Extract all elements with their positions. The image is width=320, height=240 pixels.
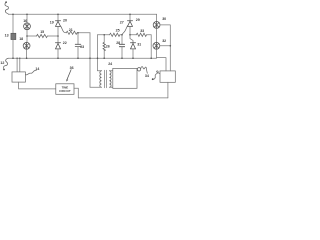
wire R33 to corner [147, 35, 152, 58]
svg-text:23: 23 [80, 45, 84, 49]
svg-text:34: 34 [145, 74, 149, 78]
svg-text:36: 36 [70, 66, 74, 70]
wire SCR2 cathode stub [129, 14, 131, 20]
wire R26 bottom stub [103, 51, 105, 58]
diode D31 [130, 43, 135, 49]
wire top rail [9, 13, 157, 15]
wire R26 top stub [103, 35, 105, 43]
wire lamp node east lead [156, 58, 166, 71]
time delay box [56, 84, 74, 95]
wire right mid rail corner [98, 34, 110, 36]
wire anode branch right [130, 34, 136, 36]
junction dots [12, 14, 171, 60]
wire secondary top lead [109, 70, 112, 72]
AC lead squiggle top-left [5, 2, 9, 14]
svg-text:22: 22 [63, 41, 67, 45]
squiggle tip bottom [3, 69, 5, 71]
wire mid rail left [27, 35, 37, 37]
svg-text:32: 32 [162, 39, 166, 43]
wire SCR1 anode to diode [57, 26, 59, 42]
wire cap2 bottom stub [121, 47, 123, 59]
svg-text:33: 33 [140, 29, 144, 33]
capacitor C23 [75, 44, 81, 46]
plug box [12, 72, 25, 82]
wire lamp column lower [26, 49, 28, 58]
svg-text:14: 14 [35, 67, 39, 71]
svg-text:19: 19 [50, 21, 54, 25]
resistor R33 [136, 33, 146, 36]
resistor R25 [110, 33, 120, 36]
svg-text:15: 15 [40, 30, 44, 34]
diode D22 [55, 43, 60, 49]
wire SCR2 anode jog to diode [130, 26, 133, 42]
time delay box text [59, 86, 71, 93]
resistor R13 (box) [11, 33, 16, 39]
wire diode22 to bottom rail [57, 49, 59, 58]
wire R25 to cap junction [120, 34, 122, 36]
wire cap1 top stub [77, 33, 79, 45]
resistor R15 [37, 34, 48, 37]
wire bottom rail [9, 57, 157, 59]
svg-text:20: 20 [63, 18, 67, 22]
wire timer exit right [74, 88, 78, 98]
wire lamp30 right lead [160, 25, 170, 71]
svg-text:18: 18 [19, 37, 23, 41]
wire lamp column upper [26, 14, 28, 22]
svg-text:31: 31 [137, 43, 141, 47]
lamp L32 [153, 42, 160, 49]
wire lamp chain mid [156, 29, 158, 43]
SCR Q27 [127, 21, 132, 27]
lamp L16 [24, 23, 31, 30]
transformer T24 secondary winding [109, 71, 111, 88]
wire left vertical upper [12, 14, 14, 33]
svg-text:28: 28 [116, 41, 120, 45]
svg-text:21: 21 [69, 28, 73, 32]
SCR Q19 [55, 21, 60, 27]
svg-text:CIRCUIT: CIRCUIT [59, 89, 71, 93]
wire gate line to corner [77, 32, 90, 34]
AC lead squiggle bottom-left [3, 58, 8, 69]
cord tip dot [152, 78, 154, 80]
wire mid rail right [47, 35, 58, 37]
svg-text:29: 29 [136, 18, 140, 22]
svg-text:30: 30 [162, 17, 166, 21]
cord squiggle a [141, 67, 148, 74]
wire lamp chain top corner [156, 14, 158, 21]
jack circle [137, 68, 140, 71]
squiggle tip top [5, 1, 7, 3]
lamp L30 [153, 21, 160, 28]
pointer arrowhead [66, 79, 68, 82]
svg-text:24: 24 [108, 62, 112, 66]
antenna wavy lead 14 [25, 70, 36, 75]
wire left vertical lower [12, 40, 14, 59]
wire lamp column mid [26, 30, 28, 42]
resistor R26 (vertical) [103, 42, 105, 51]
svg-text:12: 12 [0, 61, 4, 65]
transformer T24 primary winding [100, 71, 102, 88]
lamp L18 [23, 42, 30, 49]
wire speaker box bottom lead [167, 82, 169, 98]
svg-text:26: 26 [106, 45, 110, 49]
wire plug box bottom lead [19, 82, 56, 89]
capacitor C28 [119, 44, 124, 46]
wire diode31 to bottom rail [132, 49, 134, 58]
wire SCR1 cathode stub [57, 14, 59, 20]
labels [0, 17, 166, 78]
svg-text:13: 13 [5, 33, 9, 37]
wire lamp32 right lead [160, 45, 170, 47]
pointer lead line 36 [67, 70, 71, 79]
wire transformer primary bottom lead [90, 86, 102, 88]
wire plug lead a [16, 58, 18, 72]
svg-text:16: 16 [23, 19, 27, 23]
svg-text:25: 25 [116, 29, 120, 33]
wire x90 vertical down to transformer [89, 33, 91, 88]
wire secondary bottom lead [109, 86, 112, 88]
SCR1 gate curve [60, 26, 66, 33]
wire transformer primary top lead [98, 70, 102, 72]
wire lamp chain bottom [155, 49, 157, 58]
cord squiggle b [153, 71, 160, 79]
resistor R21 [66, 31, 77, 34]
svg-text:27: 27 [120, 20, 124, 24]
wire cap2 top stub [121, 35, 123, 45]
SCR2 gate curve [122, 26, 128, 35]
speaker box [160, 71, 175, 82]
wire x97 vertical [97, 35, 99, 71]
wire bottom rail 2 [78, 97, 168, 99]
wire plug lead b [19, 58, 21, 72]
transformer T24 core [105, 70, 107, 88]
amplifier box [113, 68, 137, 88]
wire cap1 bottom stub [77, 47, 79, 59]
